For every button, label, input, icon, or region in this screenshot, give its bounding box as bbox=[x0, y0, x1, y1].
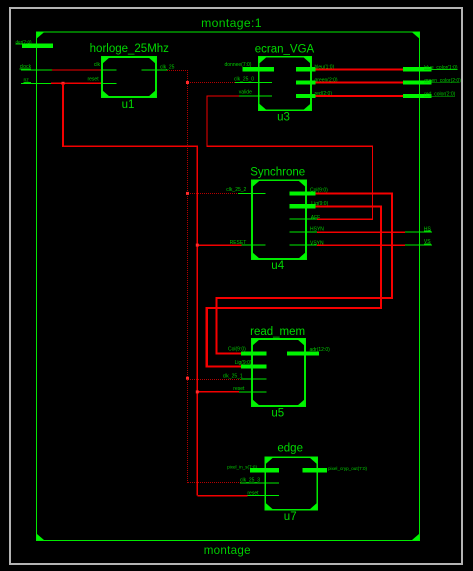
svg-text:u7: u7 bbox=[284, 511, 297, 523]
wire net HSYN bbox=[317, 231, 405, 233]
wire net clk_25 branch to U5 bbox=[188, 379, 241, 380]
wire net clk_25 dotted vertical trunk bbox=[187, 70, 188, 483]
junction clk_25 / U5 branch bbox=[186, 377, 189, 380]
wire net clk_25 branch to U4 bbox=[188, 193, 239, 194]
svg-text:u3: u3 bbox=[277, 111, 290, 123]
sheet corner marks bbox=[37, 32, 419, 540]
svg-text:horloge_25Mhz: horloge_25Mhz bbox=[90, 43, 170, 55]
svg-text:montage: montage bbox=[204, 544, 251, 557]
wire net red bus bbox=[316, 95, 404, 97]
svg-text:AFF: AFF bbox=[311, 215, 320, 221]
svg-text:montage:1: montage:1 bbox=[201, 16, 262, 30]
wire net clock (highlighted) bbox=[52, 69, 102, 71]
wire net Lig bus bbox=[207, 206, 381, 366]
wire net reset vertical from nz bbox=[63, 83, 197, 495]
svg-text:valide: valide bbox=[239, 89, 252, 95]
wire net nz (highlighted) bbox=[51, 82, 102, 84]
svg-text:adr(12:0): adr(12:0) bbox=[310, 347, 331, 353]
wire net Col bus bbox=[217, 193, 392, 353]
wire net bleu bus bbox=[316, 68, 405, 70]
svg-text:read_mem: read_mem bbox=[250, 326, 305, 338]
junction nz net bbox=[62, 82, 65, 85]
output port blue_color(1:0) bbox=[403, 67, 432, 71]
wire net reset branch to U4 RESET bbox=[197, 244, 241, 246]
svg-text:u4: u4 bbox=[271, 260, 284, 272]
svg-text:u1: u1 bbox=[122, 99, 135, 111]
wire net reset branch to U7 reset bbox=[197, 495, 247, 497]
svg-text:u5: u5 bbox=[271, 408, 284, 420]
svg-text:clk_25_0: clk_25_0 bbox=[234, 76, 254, 82]
svg-text:reset: reset bbox=[87, 76, 99, 82]
output port HS bbox=[405, 231, 432, 233]
output port VS bbox=[405, 244, 432, 246]
svg-text:donnee(7:0): donnee(7:0) bbox=[225, 62, 252, 68]
svg-text:clk_25_1: clk_25_1 bbox=[223, 373, 243, 379]
wire net clk_25 dotted horizontal from U1 bbox=[167, 70, 188, 71]
U7 pin pixel_cryp_out(7:0) bbox=[302, 468, 327, 472]
junction clk_25 / U4 branch bbox=[186, 192, 189, 195]
svg-text:ecran_VGA: ecran_VGA bbox=[255, 43, 315, 55]
wire net valide-AFF bbox=[207, 96, 372, 219]
junction reset / U5 branch bbox=[196, 390, 199, 393]
svg-text:reset: reset bbox=[233, 386, 245, 392]
U5 pin adr(12:0) bbox=[287, 351, 319, 355]
wire net VSYN bbox=[317, 244, 405, 246]
wire net clk_25 branch to U3 bbox=[188, 82, 235, 83]
output port green_color(2:0) bbox=[403, 80, 432, 84]
svg-text:edge: edge bbox=[277, 443, 303, 455]
svg-text:pixel_cryp_out(7:0): pixel_cryp_out(7:0) bbox=[328, 466, 368, 471]
junction reset / U4 branch bbox=[196, 244, 199, 247]
svg-text:clk: clk bbox=[94, 62, 101, 68]
sheet border bbox=[37, 32, 420, 541]
svg-text:clk_25_2: clk_25_2 bbox=[226, 187, 246, 193]
wire net green bus bbox=[316, 81, 404, 83]
output port red_color(2:0) bbox=[403, 94, 432, 98]
svg-text:Synchrone: Synchrone bbox=[250, 166, 305, 178]
wire net reset branch to U5 reset bbox=[197, 391, 239, 393]
junction clk_25 / U3 branch bbox=[186, 81, 189, 84]
svg-text:der(7:0): der(7:0) bbox=[16, 39, 33, 44]
wire net clk_25 branch to U7 bbox=[188, 482, 241, 483]
